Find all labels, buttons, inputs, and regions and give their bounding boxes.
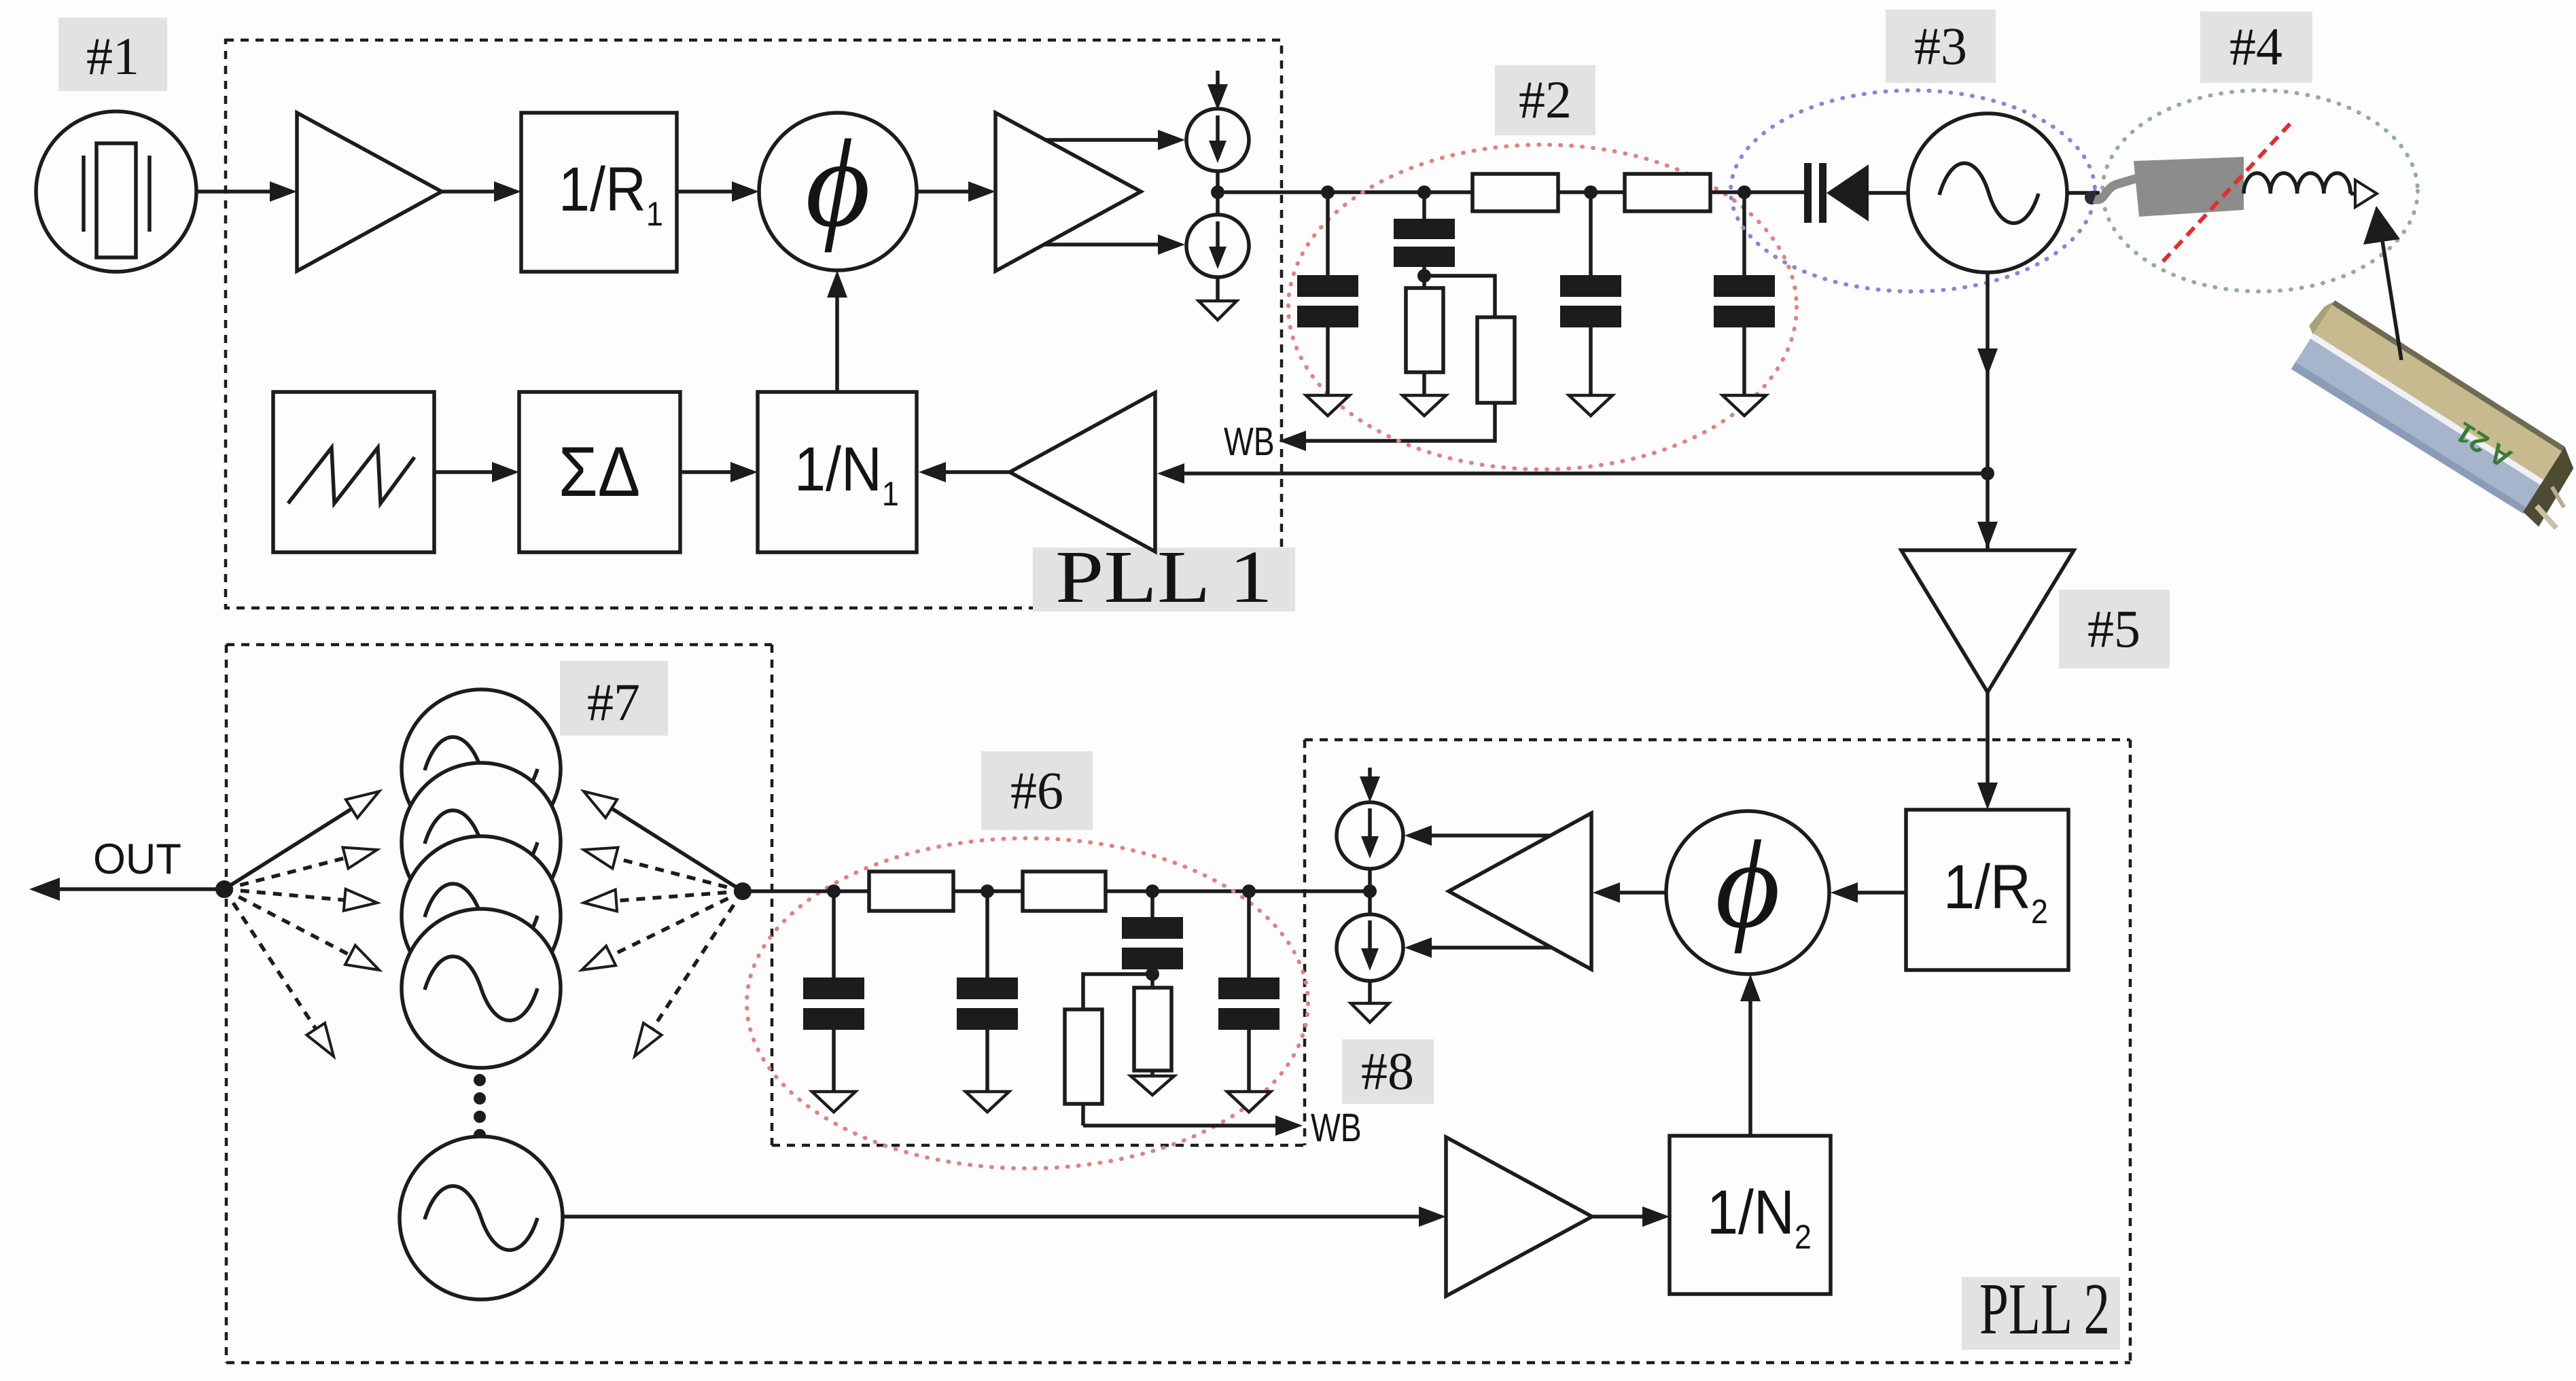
resistor R3 to ground	[1406, 288, 1443, 395]
node A main line	[1321, 185, 1335, 199]
oscillator bank circle 4	[402, 909, 561, 1068]
svg-text:ϕ: ϕ	[805, 114, 870, 253]
svg-text:#5: #5	[2087, 599, 2140, 658]
wire I4 to ground	[1368, 981, 1372, 1003]
oscillator bank circle 1	[402, 689, 561, 848]
resistor R2 series	[1625, 174, 1710, 211]
wire oscillator N to amp A6	[563, 1206, 1446, 1227]
sawtooth generator	[273, 392, 434, 552]
wire 1/R1 to phase detector U1	[677, 181, 759, 202]
VCO oscillator	[1908, 113, 2067, 272]
resistor R1 series	[1472, 174, 1558, 211]
node C2-R junction	[1417, 269, 1431, 283]
fan arrow left dashed 3	[224, 889, 379, 970]
capacitor C3 shunt	[1560, 192, 1621, 395]
svg-text:ΣΔ: ΣΔ	[559, 431, 640, 511]
amplifier A2	[995, 113, 1141, 271]
charge pump CP2 supply arrow	[1360, 768, 1380, 802]
microstrip stub	[2134, 157, 2244, 217]
wire sawtooth to sigma-delta	[434, 462, 519, 482]
crystal oscillator #1	[36, 111, 196, 272]
PLL 1 label	[1033, 535, 1295, 618]
fan arrow right dashed 1	[584, 848, 743, 891]
wire R5 to R6	[953, 889, 1023, 893]
resistor R6 series	[1023, 872, 1106, 911]
node E main line 2	[827, 884, 841, 898]
capacitor C1 shunt	[1297, 192, 1358, 395]
node C main line	[1584, 185, 1598, 199]
divider 1/N2	[1670, 1136, 1831, 1294]
oscillator bank circle 3	[402, 836, 561, 995]
wire A5 to charge pump up	[1405, 825, 1551, 846]
fan arrow right dashed 4	[635, 891, 743, 1056]
fan arrow right dashed 2	[584, 890, 743, 912]
wire A2 to charge pump down	[1044, 234, 1185, 255]
ground CP1	[1199, 301, 1237, 320]
VCO region ellipse	[1731, 90, 2095, 291]
svg-text:#7: #7	[587, 672, 640, 732]
wire VCO down	[1986, 272, 1990, 550]
photo pointer arrow	[2363, 206, 2401, 360]
fan arrow left dashed 4	[224, 889, 334, 1056]
node B main line	[1417, 185, 1431, 199]
svg-text:#3: #3	[1914, 16, 1967, 75]
amplifier A4	[1901, 550, 2074, 692]
ground C6	[966, 1092, 1009, 1112]
node CP2 output	[1363, 884, 1377, 898]
node C7-R junction	[1146, 967, 1159, 981]
arrow into A4 buffer	[1977, 522, 1998, 549]
ground CP2	[1351, 1003, 1389, 1022]
capacitor C4 shunt	[1714, 192, 1775, 395]
wire A5 to charge pump down	[1405, 937, 1552, 958]
feedback wire VCO junction to A3	[1157, 463, 1988, 484]
wire A2 to charge pump up	[1046, 130, 1185, 150]
label #4	[2200, 12, 2312, 83]
resistor R4 to WB	[1424, 276, 1515, 403]
stub connector hook	[2085, 191, 2098, 204]
ground C4	[1723, 395, 1766, 416]
fan arrow left dashed 1	[224, 848, 377, 890]
ground C5	[812, 1092, 855, 1112]
wire sigma-delta to 1/N1	[680, 462, 758, 482]
wire I3 to I4	[1368, 869, 1372, 914]
resistor R7 to WB	[1065, 974, 1152, 1126]
varactor D1	[1804, 163, 1908, 223]
wire crystal to amp A1	[196, 181, 297, 202]
amplifier A5	[1449, 813, 1591, 969]
svg-text:PLL 2: PLL 2	[1979, 1269, 2110, 1350]
ellipsis dots	[474, 1074, 486, 1141]
oscillator bank circle 2	[402, 763, 561, 922]
current source I4	[1337, 914, 1403, 981]
node H main line 2	[1242, 884, 1256, 898]
WB tap wire PLL1	[1279, 403, 1495, 451]
loop filter 2 region ellipse	[747, 838, 1308, 1168]
wire A6 to 1/N2	[1592, 1206, 1670, 1227]
PLL 2 label	[1962, 1269, 2120, 1350]
flow arrow VCO down	[1977, 348, 1998, 376]
wire A3 to 1/N1	[919, 462, 1010, 482]
capacitor C2 series	[1394, 192, 1455, 288]
phase detector U1	[759, 113, 917, 270]
node D main line	[1737, 185, 1751, 199]
label #2	[1495, 65, 1595, 135]
resistor R5 series	[869, 872, 953, 911]
node output fan left	[215, 880, 233, 898]
wire 1/R2 to U2	[1831, 882, 1906, 903]
svg-text:ϕ: ϕ	[1715, 815, 1780, 954]
divider 1/N1	[758, 392, 917, 552]
label #5	[2059, 590, 2170, 668]
resonator region ellipse	[2102, 90, 2418, 291]
wire R2 to varactor	[1710, 190, 1804, 194]
wire A4 to 1/R2	[1977, 692, 1998, 810]
svg-text:#4: #4	[2229, 17, 2282, 76]
wire fan node to filter 2	[743, 889, 869, 893]
capacitor C5 shunt	[803, 891, 864, 1092]
wire I2 to ground	[1216, 277, 1220, 301]
svg-text:#6: #6	[1010, 761, 1063, 820]
divider 1/R2	[1906, 810, 2068, 970]
loop filter 1 region ellipse	[1288, 145, 1797, 469]
wire R1 to R2	[1558, 190, 1625, 194]
ground C1	[1306, 395, 1349, 416]
node output fan right	[734, 882, 752, 900]
output port arrowhead	[2355, 180, 2377, 207]
current source I3	[1337, 802, 1403, 869]
capacitor C7 series	[1122, 891, 1183, 988]
PLL 1 dashed box	[226, 40, 1282, 608]
ground C8	[1227, 1092, 1271, 1112]
current source I2	[1186, 215, 1249, 277]
label #8	[1342, 1039, 1434, 1104]
svg-text:#2: #2	[1519, 70, 1572, 129]
wire CP1 to loop filter	[1224, 190, 1472, 194]
fan arrow left dashed 2	[224, 889, 377, 911]
label #6	[981, 751, 1093, 830]
svg-text:PLL 1: PLL 1	[1055, 535, 1273, 618]
coaxial resonator photo	[2284, 296, 2576, 535]
capacitor C6 shunt	[957, 891, 1018, 1092]
sigma-delta modulator	[519, 392, 680, 552]
node F main line 2	[981, 884, 994, 898]
ground R8	[1131, 1076, 1174, 1095]
inductor L1	[2244, 173, 2350, 194]
svg-text:#8: #8	[1361, 1041, 1414, 1100]
fan arrow right solid	[584, 791, 743, 891]
node G main line 2	[1146, 884, 1159, 898]
charge pump CP1 supply arrow	[1207, 71, 1228, 110]
node VCO feedback junction	[1981, 467, 1994, 480]
svg-text:OUT: OUT	[93, 836, 181, 883]
wire I1 to I2	[1216, 171, 1220, 215]
amplifier A3	[1010, 393, 1155, 552]
red trim line	[2163, 121, 2293, 262]
ground R3	[1402, 395, 1446, 416]
current source I1	[1186, 109, 1249, 171]
resistor R8 to ground	[1134, 988, 1171, 1076]
ground C3	[1569, 395, 1612, 416]
PLL 2 dashed outline	[226, 645, 2130, 1363]
OUT wire	[29, 878, 224, 901]
wire CP2 to loop filter 2	[1106, 889, 1370, 893]
wire U1 to amp A2	[917, 181, 995, 202]
wire U2 to amp A5	[1593, 882, 1666, 903]
fan arrow left solid	[224, 791, 379, 889]
label #7	[560, 661, 668, 736]
fan arrow right dashed 3	[582, 891, 743, 970]
phase detector U2	[1666, 811, 1829, 974]
wire L1 to output port	[2350, 192, 2355, 196]
amplifier A6	[1446, 1137, 1592, 1296]
divider 1/R1	[521, 113, 677, 272]
wire A1 to 1/R1	[442, 181, 521, 202]
capacitor C8 shunt	[1218, 891, 1280, 1092]
svg-text:#1: #1	[86, 26, 139, 86]
wire VCO to stub	[2067, 191, 2100, 195]
node CP1 output	[1211, 185, 1224, 199]
wire 1/N2 to U2	[1740, 974, 1761, 1136]
label #3	[1886, 10, 1996, 83]
oscillator N	[400, 1136, 563, 1299]
amplifier A1	[297, 113, 442, 271]
svg-text:WB: WB	[1224, 420, 1275, 464]
WB tap wire PLL2	[1083, 1115, 1303, 1136]
svg-text:WB: WB	[1311, 1106, 1362, 1150]
label #1	[58, 18, 167, 91]
wire 1/N1 to U1	[827, 270, 847, 392]
